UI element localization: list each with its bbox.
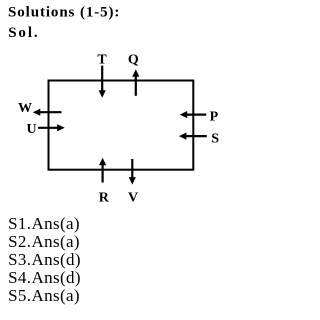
- svg-text:Solutions (1-5):: Solutions (1-5):: [8, 5, 120, 21]
- svg-text:U: U: [27, 122, 37, 137]
- arrow V (pointing down out of rectangle): [129, 159, 136, 185]
- svg-text:S4.Ans(d): S4.Ans(d): [8, 268, 81, 287]
- svg-text:S2.Ans(a): S2.Ans(a): [8, 232, 80, 251]
- svg-text:R: R: [99, 190, 110, 205]
- arrow S (pointing left into rectangle): [179, 133, 207, 140]
- arrow Q (pointing up out of rectangle): [132, 69, 139, 96]
- rectangle table: [49, 81, 194, 170]
- svg-text:V: V: [128, 190, 138, 205]
- svg-text:Sol.: Sol.: [8, 25, 39, 41]
- arrow U (pointing right into rectangle): [38, 124, 65, 131]
- svg-text:W: W: [18, 101, 32, 116]
- svg-text:S5.Ans(a): S5.Ans(a): [8, 286, 80, 305]
- arrow T (pointing down into rectangle): [99, 66, 106, 98]
- arrow P (pointing left into rectangle): [180, 111, 207, 118]
- svg-text:Q: Q: [128, 52, 139, 67]
- svg-text:P: P: [210, 110, 219, 125]
- arrow R (pointing up into rectangle): [99, 158, 106, 183]
- arrow W (pointing left out of rectangle): [33, 109, 62, 116]
- svg-text:T: T: [97, 52, 107, 67]
- svg-text:S3.Ans(d): S3.Ans(d): [8, 250, 81, 269]
- svg-text:S1.Ans(a): S1.Ans(a): [8, 214, 80, 233]
- svg-text:S: S: [211, 132, 219, 147]
